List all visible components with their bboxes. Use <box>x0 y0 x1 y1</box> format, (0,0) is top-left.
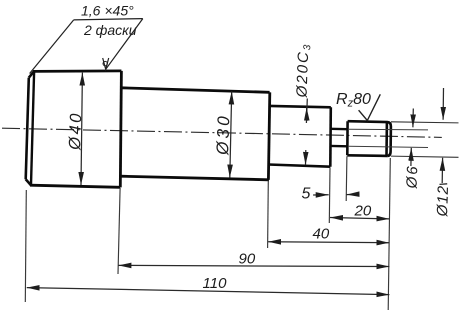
d12 extension line bottom <box>391 156 459 157</box>
extension below step1 for dim 90 <box>118 188 120 274</box>
centerline <box>2 128 442 137</box>
svg-text:Rz80: Rz80 <box>336 91 371 110</box>
open arrowhead <box>103 58 109 69</box>
d30 bottom edge <box>121 176 270 180</box>
chamfer edge line <box>31 72 34 185</box>
dim 5 right arrow <box>347 193 358 195</box>
dimension line 40 <box>268 242 389 243</box>
dimension line 110 <box>27 288 390 295</box>
bottom-left chamfer <box>26 179 31 185</box>
svg-text:20: 20 <box>354 203 372 220</box>
dimension line d40 <box>81 73 82 185</box>
svg-text:5: 5 <box>302 186 311 203</box>
svg-text:Ø30: Ø30 <box>213 113 233 156</box>
d20 bottom edge <box>268 165 330 167</box>
svg-text:40: 40 <box>313 226 330 243</box>
dim d6 upper arrow <box>412 109 414 128</box>
svg-text:Ø20C3: Ø20C3 <box>293 42 313 98</box>
neck bottom edge <box>330 145 347 148</box>
step d40/d30 <box>120 71 121 187</box>
small loop on arrowhead <box>103 61 107 65</box>
d12 extension line top <box>391 122 459 123</box>
top-left chamfer <box>29 71 34 78</box>
dim d12 lower arrow <box>441 158 443 183</box>
svg-text:90: 90 <box>239 251 256 268</box>
extension below step2 for dim 40 <box>267 181 270 249</box>
tick from label d12 to its dimension line <box>440 183 448 186</box>
d12 bottom edge <box>347 154 387 157</box>
svg-text:Ø40: Ø40 <box>66 111 85 151</box>
label underline <box>74 19 143 20</box>
leader to top chamfer with open arrow <box>106 19 143 70</box>
dimension line 20 <box>330 218 389 219</box>
svg-text:1,6 ×45°: 1,6 ×45° <box>81 3 134 19</box>
neck top edge <box>331 128 348 131</box>
d6 extension line top <box>348 128 428 131</box>
svg-text:110: 110 <box>203 275 228 292</box>
d20 top edge <box>270 106 331 107</box>
svg-text:Ø6: Ø6 <box>403 164 421 190</box>
d12 rounded right end <box>387 122 391 156</box>
shaft left face <box>26 78 29 180</box>
extension below step4 for dim 5 <box>345 156 348 201</box>
d12 top edge <box>348 120 388 124</box>
dimension line d20 lower segment with down arrow <box>305 150 307 165</box>
left extension line for dim 110 <box>25 190 26 302</box>
svg-text:2 фаски: 2 фаски <box>83 22 137 38</box>
dim 5 left arrow <box>313 194 329 196</box>
dimension line d20 upper segment with up arrow <box>305 99 308 124</box>
d12 spherical end tangent line <box>385 122 388 156</box>
dimension line d30 <box>230 91 232 177</box>
right extension line common to dims 20 40 90 110 <box>388 158 390 310</box>
dimension line 90 <box>118 265 389 266</box>
dim d6 lower arrow <box>410 148 412 166</box>
d40 top edge <box>33 70 121 73</box>
step neck/d12 <box>346 121 349 155</box>
roughness check mark <box>359 94 381 120</box>
d30 top edge <box>121 88 270 93</box>
step d20/neck <box>329 107 332 166</box>
d6 extension line bottom <box>348 146 428 147</box>
leader to left chamfer <box>30 20 74 74</box>
d40 bottom edge <box>30 185 120 187</box>
svg-text:Ø12: Ø12 <box>434 185 452 218</box>
extension below step3 for dims 5 and 20 <box>328 168 331 224</box>
dim d12 upper arrow <box>442 88 444 120</box>
step d30/d20 <box>268 92 269 180</box>
